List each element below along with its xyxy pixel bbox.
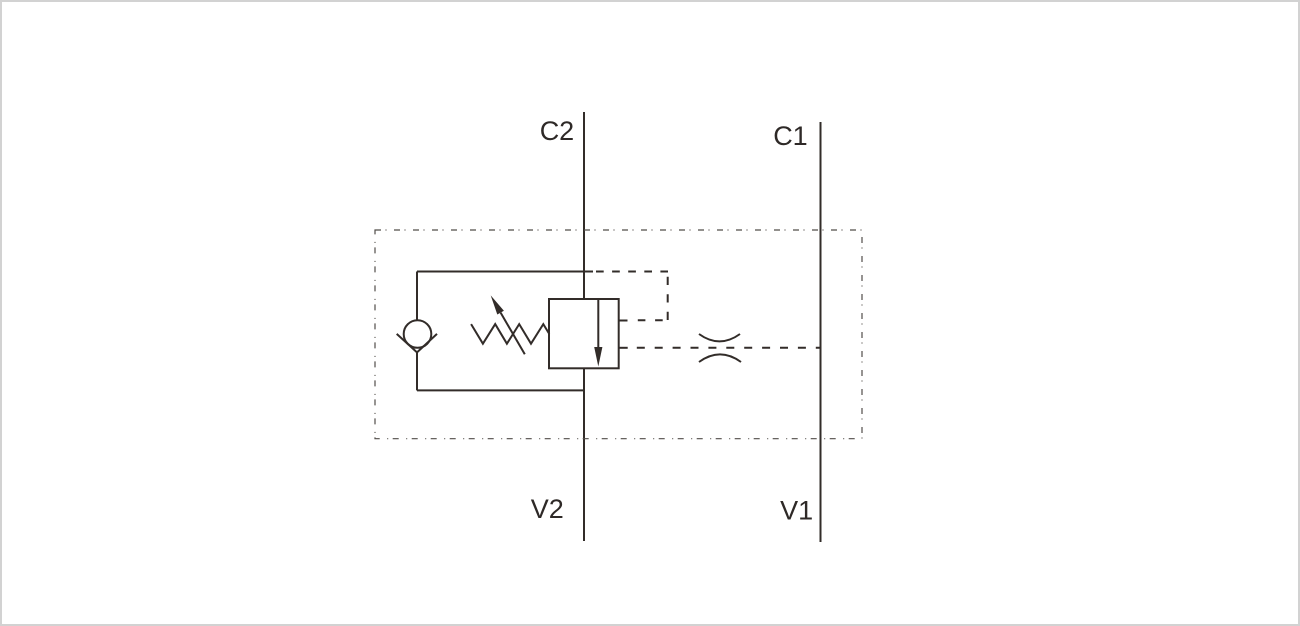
svg-text:C2: C2 xyxy=(540,116,575,146)
svg-text:V1: V1 xyxy=(780,496,813,526)
relief valve flow arrow xyxy=(597,299,599,349)
pilot line lower (dashed) xyxy=(637,347,821,349)
spring (adjustable) xyxy=(471,324,549,344)
pilot stub lower xyxy=(619,347,628,349)
adjustment arrow xyxy=(501,313,525,355)
wire C1-V1 line xyxy=(820,122,822,542)
pilot line upper, bottom run (dashed) xyxy=(638,319,663,321)
svg-text:C1: C1 xyxy=(773,121,808,151)
orifice upper arc xyxy=(699,334,740,341)
check valve CV1 seat xyxy=(397,334,437,353)
relief valve box xyxy=(549,299,619,368)
wire check-valve branch top xyxy=(417,271,593,273)
wire C2 line (upper segment, port C2 to valve box) xyxy=(583,112,585,299)
pilot line upper, top run (dashed) xyxy=(596,271,668,273)
valve envelope (dash-dot boundary) xyxy=(375,230,862,439)
wire check-valve branch bottom xyxy=(417,389,584,391)
pilot line upper, right drop (dashed) xyxy=(667,277,669,320)
pilot stub upper xyxy=(619,320,628,322)
check valve CV1 circle xyxy=(404,320,432,348)
orifice lower arc xyxy=(699,354,741,362)
wire V2 line (lower segment, valve box to port V2) xyxy=(583,368,585,541)
wire check-valve branch left lower xyxy=(416,352,418,390)
wire check-valve branch left upper xyxy=(416,272,418,322)
svg-text:V2: V2 xyxy=(531,494,564,524)
